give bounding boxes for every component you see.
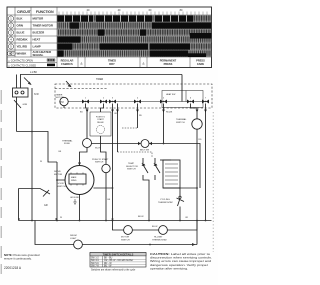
svg-text:SWITCH: SWITCH [95, 162, 104, 164]
svg-text:GROUND: GROUND [70, 197, 79, 199]
arrow into timer box [66, 81, 71, 87]
svg-text:TIMER MOTOR: TIMER MOTOR [33, 24, 54, 28]
timer contact 7 [202, 100, 209, 104]
svg-text:WH/BK: WH/BK [17, 52, 28, 56]
wire contact7 down [205, 104, 207, 221]
timer contact 5 [160, 100, 167, 104]
svg-text:RELAY: RELAY [97, 121, 104, 124]
bar row 4 (heat) [57, 33, 211, 43]
thermal fuse TF [83, 139, 92, 148]
svg-text:LIGHT: LIGHT [70, 238, 77, 240]
svg-text:N W: N W [34, 93, 39, 96]
wire neutral horizontal run [17, 132, 58, 163]
svg-text:SWITCH: SWITCH [127, 169, 136, 171]
svg-text:W: W [60, 217, 62, 219]
wire hi-limit down [196, 129, 198, 244]
wire timer internal bus [68, 101, 209, 103]
chart bottom cycle label band dividers [78, 57, 190, 68]
svg-text:W: W [40, 161, 42, 163]
junction dots on bus [31, 220, 206, 222]
wire contact3 long drop [112, 104, 114, 221]
svg-text:THERMAL: THERMAL [62, 140, 73, 143]
wire motor bottom lead [79, 195, 81, 221]
timer contact 2 [100, 100, 107, 104]
belt switch BS [141, 140, 149, 148]
heater box [163, 160, 180, 188]
svg-text:SWITCH: SWITCH [176, 122, 185, 124]
svg-text:FUNCTION: FUNCTION [36, 10, 54, 14]
wire color labels [40, 112, 202, 229]
wire lamp return [82, 244, 197, 246]
bar row 5 (lamp) [57, 43, 211, 49]
cycle labels [61, 59, 206, 66]
bar row 1 (motor) [57, 15, 211, 21]
svg-text:DRUM: DRUM [70, 235, 77, 237]
svg-text:SW 7-8: SW 7-8 [91, 265, 99, 267]
svg-text:THERMOSTAT: THERMOSTAT [152, 238, 167, 241]
temp selector switch pole 1 [142, 158, 144, 163]
wire motor left down [56, 180, 58, 221]
drive motor M1 [65, 166, 94, 195]
drum light [74, 240, 83, 249]
svg-text:PRESS: PRESS [164, 62, 173, 66]
svg-text:ensure it continuously.: ensure it continuously. [4, 256, 32, 260]
chart outer border [7, 7, 212, 68]
timer contact 4 [134, 100, 141, 104]
bar row 6 (aux) [57, 50, 211, 57]
svg-text:22001218 A: 22001218 A [4, 266, 22, 270]
svg-text:RD-BK: RD-BK [166, 112, 173, 114]
svg-text:Switches are shown referenced: Switches are shown referenced to the cyc… [91, 269, 136, 272]
svg-text:TEMP: TEMP [128, 163, 135, 165]
table wire color / function labels [17, 17, 54, 58]
svg-text:DRY: DRY [109, 62, 115, 66]
selector feed dashed [118, 152, 153, 158]
motor switch circle [124, 226, 133, 235]
junction contact5 drop [163, 104, 165, 144]
svg-text:PUSH TO: PUSH TO [96, 117, 106, 119]
svg-text:CARE: CARE [197, 62, 205, 66]
svg-text:FUSE: FUSE [64, 143, 70, 145]
svg-text:LAMP: LAMP [33, 45, 41, 49]
junction neutral crossing [31, 131, 33, 133]
svg-text:FABRICS: FABRICS [61, 62, 73, 66]
wire aux vertical [117, 104, 119, 153]
svg-text:L1 BK: L1 BK [30, 70, 37, 74]
svg-text:DRIVE: DRIVE [54, 171, 61, 173]
wire motor right lead [94, 187, 113, 189]
svg-text:BK-W: BK-W [138, 216, 143, 218]
svg-text:ORN: ORN [17, 24, 23, 28]
svg-text:START: START [97, 118, 104, 121]
wire relay to p2s switch [101, 136, 107, 164]
wire between circles [132, 229, 158, 231]
svg-text:GRN: GRN [23, 104, 28, 106]
junction motor left [56, 179, 58, 181]
ground wire mark [14, 100, 21, 108]
ground screw marks [18, 218, 20, 220]
svg-text:BELT SW: BELT SW [140, 150, 149, 152]
power cord terminal block [13, 88, 29, 97]
svg-text:MOTOR: MOTOR [121, 237, 130, 239]
wire contact4 stub [137, 104, 139, 129]
svg-text:TM: TM [60, 101, 63, 104]
svg-text:BU - W: BU - W [104, 265, 112, 267]
wire L2 vertical [31, 88, 33, 221]
svg-text:TIMER: TIMER [56, 95, 63, 97]
svg-text:MOTOR: MOTOR [56, 97, 65, 99]
wire lamp branch [35, 221, 74, 245]
svg-text:W-OR: W-OR [95, 148, 101, 150]
push-to-start box [90, 112, 111, 136]
svg-text:CIRCUIT: CIRCUIT [17, 10, 32, 14]
svg-text:BU-W: BU-W [152, 226, 157, 228]
timer contact 6 [187, 100, 194, 104]
svg-text:PUSH TO START: PUSH TO START [92, 158, 109, 161]
wire motor left lead [57, 162, 65, 180]
svg-text:operation after servicing.: operation after servicing. [150, 266, 188, 270]
wire heat run to right [149, 144, 200, 189]
svg-text:TIMER: TIMER [96, 79, 103, 81]
svg-text:HI-LIMIT: HI-LIMIT [154, 237, 163, 239]
timer motor TM [60, 97, 68, 105]
push-to-start switch [102, 164, 110, 172]
svg-text:THERMOSTAT: THERMOSTAT [158, 201, 173, 204]
svg-text:MOTOR: MOTOR [33, 17, 45, 21]
arrow into motor [78, 163, 81, 166]
wire fuse to motor [80, 148, 88, 166]
svg-text:SELECTOR: SELECTOR [126, 166, 138, 168]
svg-text:TIMER SWITCH DETAILS: TIMER SWITCH DETAILS [103, 252, 134, 256]
wire L1 top bus [20, 74, 182, 76]
timer dashed enclosure [55, 84, 212, 108]
wire contact1 to thermal fuse [86, 104, 88, 139]
svg-text:BLUE: BLUE [17, 31, 25, 35]
wire heater top feed [160, 159, 171, 161]
svg-text:MOTOR: MOTOR [54, 174, 63, 176]
door switch [19, 189, 51, 195]
hi-limit thermostat [192, 119, 202, 129]
svg-text:GR: GR [44, 204, 48, 207]
svg-text:HEAT: HEAT [33, 38, 41, 42]
timer switch details table [90, 253, 146, 268]
scan edge right dotted [212, 112, 214, 252]
svg-text:PRESS: PRESS [196, 59, 205, 63]
junction dots on timer bus [85, 101, 206, 102]
scan edge marks [0, 90, 2, 274]
svg-text:THERMAL: THERMAL [176, 118, 187, 121]
svg-text:TIMED: TIMED [108, 59, 116, 63]
wire bottom bus [19, 220, 212, 222]
wire heat run horizontal [92, 143, 141, 145]
bar row 3 (buzzer) [57, 29, 211, 35]
wire contact6 to hi-limit [191, 104, 198, 119]
svg-text:△ CONTACTS CLOSED: △ CONTACTS CLOSED [8, 63, 36, 67]
svg-text:SIGNAL: SIGNAL [33, 53, 44, 57]
svg-text:HEAT SW: HEAT SW [166, 93, 175, 96]
heat switch sub-box [162, 91, 203, 108]
svg-text:PERMANENT: PERMANENT [160, 59, 177, 63]
arrow on lamp return [192, 243, 196, 246]
svg-text:DOOR: DOOR [57, 183, 64, 185]
wire heater bottom run [163, 187, 197, 189]
contact pin numbers [85, 98, 207, 100]
wire secondary bus [113, 221, 124, 231]
wire selector pole joins [143, 175, 149, 221]
svg-text:SWITCH: SWITCH [121, 239, 130, 241]
svg-text:CYCLING: CYCLING [160, 199, 170, 201]
wire p2s down [105, 173, 107, 221]
svg-text:BLK: BLK [17, 17, 24, 21]
wire contact2 into relay box [101, 104, 104, 113]
wire drop arrows [86, 110, 207, 113]
svg-text:△ CONTACTS OPEN: △ CONTACTS OPEN [8, 58, 33, 62]
chart row grid lines [7, 7, 212, 68]
cycling thermostat [179, 188, 181, 196]
wire dashed branch [122, 127, 138, 129]
wire ground entry [20, 75, 22, 89]
wire blower return [167, 221, 197, 231]
wire L1 drop to timer [181, 75, 183, 102]
blower thermostat [159, 226, 168, 235]
svg-text:RED/BK: RED/BK [17, 38, 29, 42]
svg-text:SWITCH: SWITCH [57, 186, 66, 188]
circled row numbers [7, 16, 15, 56]
svg-text:WIND: WIND [71, 180, 77, 182]
timer contact 1 [82, 100, 89, 104]
wire neutral entry [16, 75, 18, 89]
svg-text:MAIN: MAIN [71, 176, 77, 179]
temp selector switch pole 2 [154, 158, 156, 163]
timer contact 3 [109, 100, 116, 104]
svg-text:BUZZER: BUZZER [33, 31, 46, 35]
bar row 2 (timer motor) [57, 22, 211, 28]
cabinet ground frame [18, 189, 20, 221]
svg-text:REGULAR: REGULAR [61, 59, 74, 63]
relay coil [97, 126, 105, 134]
ground strap [24, 78, 31, 85]
wire neutral down [16, 97, 18, 132]
chart time scale ticks [59, 12, 207, 16]
svg-text:YEL/RD: YEL/RD [17, 45, 28, 49]
